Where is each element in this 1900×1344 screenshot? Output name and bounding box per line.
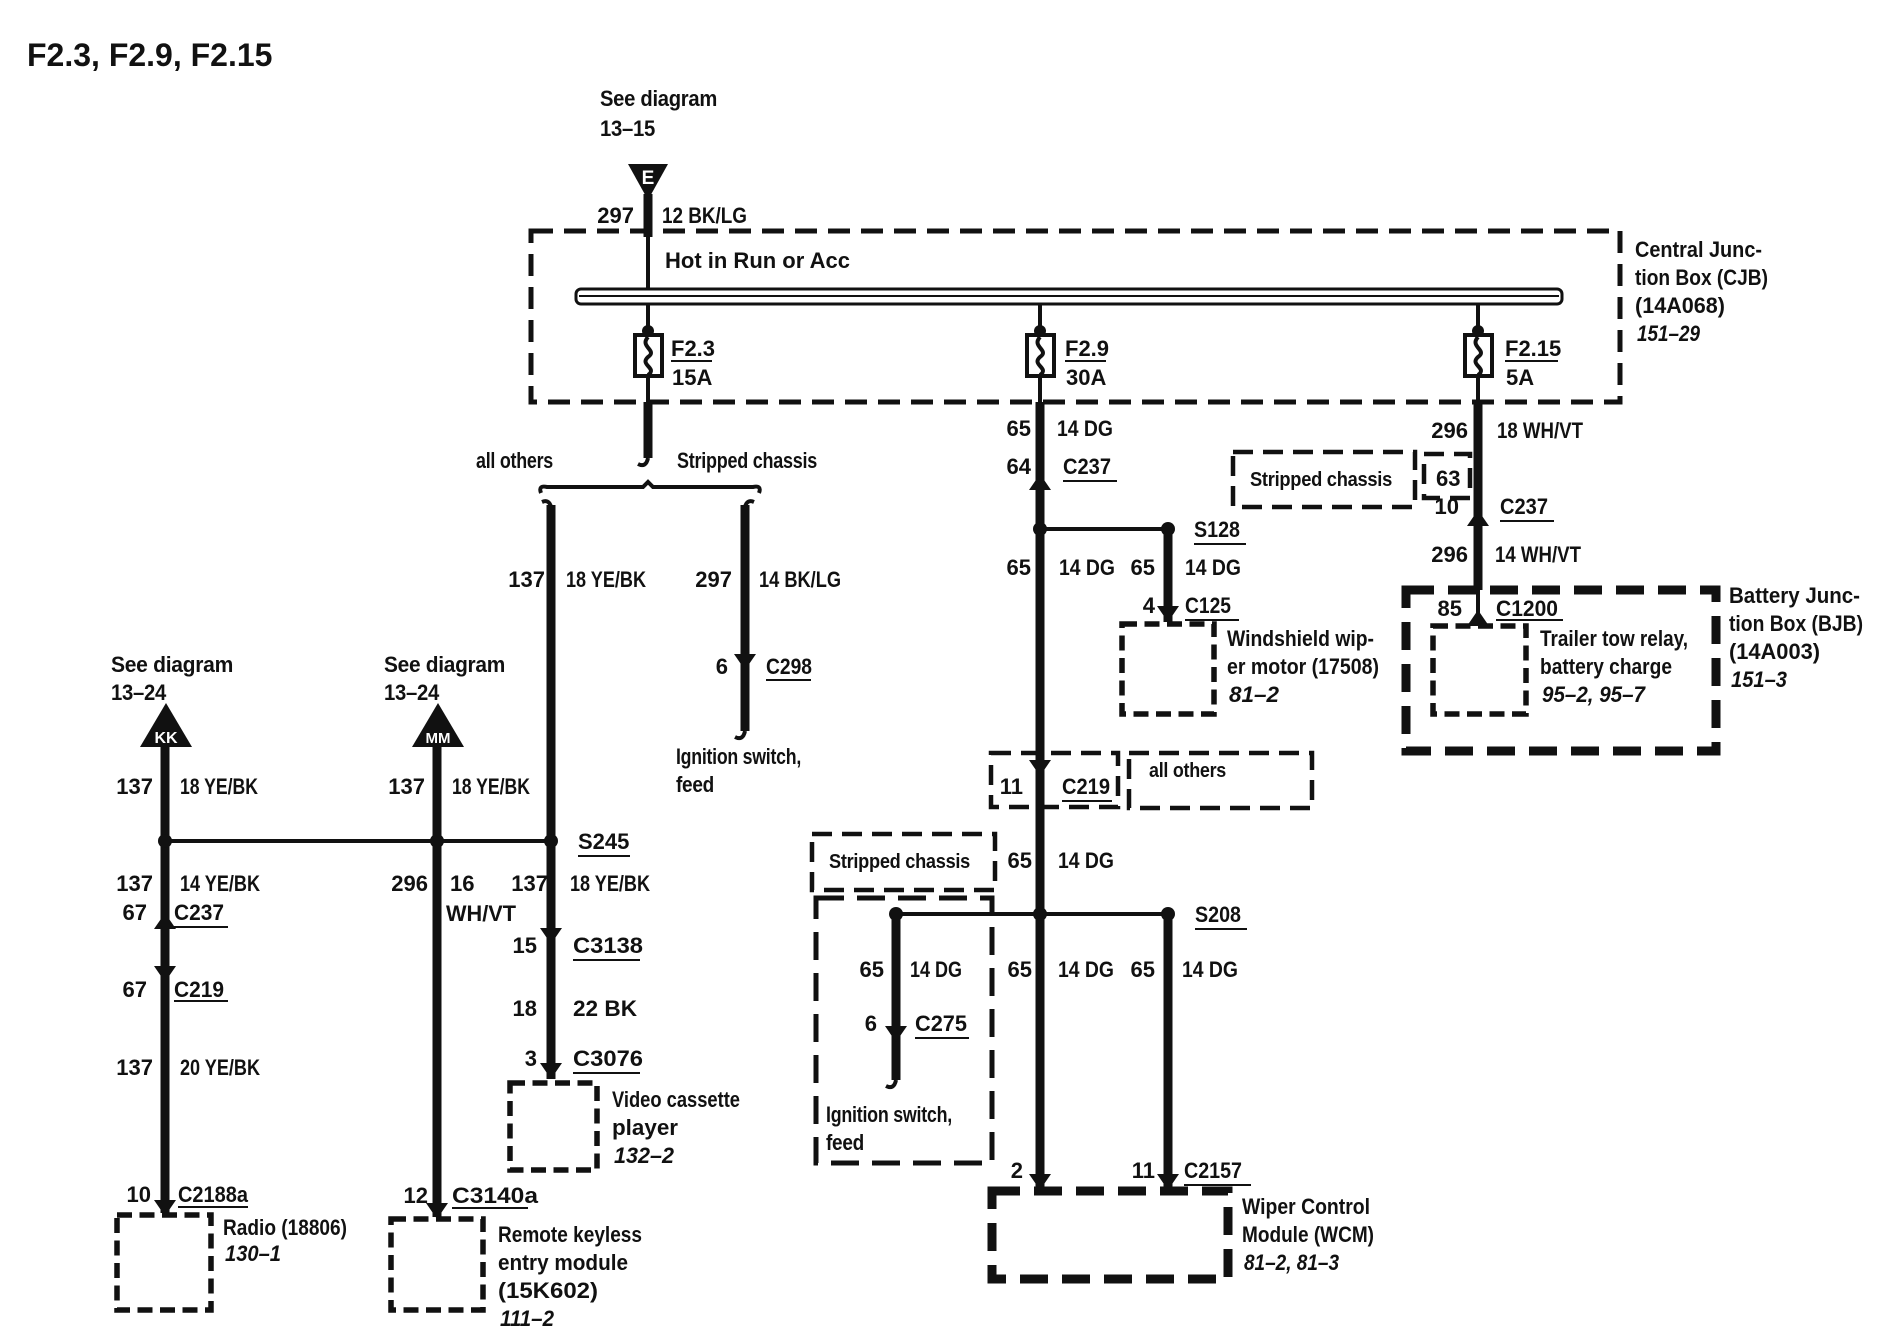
svg-text:2: 2 [1011, 1158, 1023, 1183]
svg-text:Battery Junc-: Battery Junc- [1729, 583, 1860, 608]
split bracket to two feeds [540, 482, 760, 493]
svg-text:C219: C219 [1062, 774, 1110, 799]
svg-text:67: 67 [123, 977, 147, 1002]
junction dot S208 mid [1033, 907, 1047, 921]
svg-text:16: 16 [450, 871, 474, 896]
svg-text:130–1: 130–1 [225, 1241, 281, 1266]
svg-text:See diagram: See diagram [111, 652, 233, 677]
svg-text:12: 12 [404, 1183, 428, 1208]
svg-text:18 YE/BK: 18 YE/BK [452, 774, 530, 799]
svg-text:C298: C298 [766, 654, 812, 679]
svg-text:14 DG: 14 DG [1182, 957, 1238, 982]
svg-text:C3076: C3076 [573, 1046, 643, 1071]
svg-text:F2.3: F2.3 [671, 336, 715, 361]
junction dot S245 at MM wire [430, 834, 444, 848]
wire branch stripped chassis (297 14 BK/LG) [745, 501, 754, 507]
svg-text:10: 10 [127, 1182, 151, 1207]
svg-text:Video cassette: Video cassette [612, 1087, 740, 1112]
svg-text:64: 64 [1007, 454, 1032, 479]
svg-text:65: 65 [860, 957, 884, 982]
wire fuse F2.9 to CJB edge [1038, 376, 1042, 402]
wire bus to fuse F2.3 [646, 304, 650, 335]
svg-text:18 YE/BK: 18 YE/BK [566, 567, 646, 592]
connector C219 pin 67 arrow [154, 966, 176, 982]
wire fuse F2.15 to CJB edge [1476, 376, 1480, 402]
svg-text:85: 85 [1438, 596, 1462, 621]
svg-text:See diagram: See diagram [600, 86, 717, 111]
svg-text:Trailer tow relay,: Trailer tow relay, [1540, 626, 1688, 651]
svg-text:(15K602): (15K602) [498, 1278, 598, 1303]
svg-text:C237: C237 [1500, 494, 1548, 519]
connector C2157 pin 11 arrow [1157, 1174, 1179, 1190]
svg-text:tion Box (CJB): tion Box (CJB) [1635, 265, 1768, 290]
connector C3076 pin 3 arrow [540, 1063, 562, 1079]
connector C3140a pin 12 arrow [426, 1203, 448, 1219]
wire 297 12 BK/LG from E to CJB [644, 194, 653, 237]
svg-text:Ignition switch,: Ignition switch, [676, 744, 801, 769]
svg-text:137: 137 [116, 774, 153, 799]
svg-text:WH/VT: WH/VT [446, 901, 517, 926]
svg-text:C2157: C2157 [1184, 1158, 1242, 1183]
svg-text:C237: C237 [174, 900, 224, 925]
svg-text:14 DG: 14 DG [1059, 555, 1115, 580]
svg-text:er motor (17508): er motor (17508) [1227, 654, 1379, 679]
connector KK (off-page triangle) [140, 703, 192, 747]
Battery Junction Box (BJB) enclosure [1406, 590, 1716, 751]
svg-text:(14A068): (14A068) [1635, 293, 1725, 318]
svg-text:81–2: 81–2 [1229, 682, 1280, 707]
connector C219 pin 11 box [991, 753, 1118, 807]
connector C237 pin 64 arrow [1029, 474, 1051, 490]
fuse F2.3 [635, 335, 662, 376]
svg-text:65: 65 [1008, 848, 1032, 873]
svg-text:10: 10 [1435, 494, 1459, 519]
svg-text:65: 65 [1131, 555, 1155, 580]
connector C2188a pin 10 arrow [154, 1200, 176, 1216]
junction dot fuse F2.15 top [1472, 325, 1484, 337]
svg-text:14 DG: 14 DG [1058, 957, 1114, 982]
svg-text:14 WH/VT: 14 WH/VT [1495, 542, 1581, 567]
svg-text:Hot in Run or Acc: Hot in Run or Acc [665, 248, 850, 273]
svg-text:F2.15: F2.15 [1505, 336, 1561, 361]
svg-text:13–24: 13–24 [111, 680, 167, 705]
svg-text:18 YE/BK: 18 YE/BK [570, 871, 650, 896]
svg-text:137: 137 [511, 871, 548, 896]
connector C298 pin 6 arrow [734, 654, 756, 670]
svg-text:65: 65 [1007, 555, 1031, 580]
connector E (off-page triangle) [628, 164, 668, 200]
connector C237 pin 10 arrow [1467, 510, 1489, 526]
Wiper Control Module (WCM) box [992, 1191, 1228, 1279]
svg-text:Radio (18806): Radio (18806) [223, 1215, 347, 1240]
svg-text:137: 137 [116, 871, 153, 896]
svg-text:See diagram: See diagram [384, 652, 505, 677]
svg-text:S128: S128 [1194, 517, 1240, 542]
connector C125 pin 4 arrow [1157, 606, 1179, 622]
svg-text:Stripped chassis: Stripped chassis [829, 851, 970, 873]
svg-text:137: 137 [388, 774, 425, 799]
svg-text:18 WH/VT: 18 WH/VT [1497, 418, 1583, 443]
svg-text:F2.9: F2.9 [1065, 336, 1109, 361]
svg-text:297: 297 [695, 567, 732, 592]
svg-text:65: 65 [1007, 416, 1031, 441]
note box all others [1129, 753, 1312, 808]
svg-text:297: 297 [597, 203, 634, 228]
svg-text:4: 4 [1143, 593, 1156, 618]
wire F2.3 output below CJB [644, 402, 653, 458]
junction dot S208 right [1161, 907, 1175, 921]
junction dot fuse F2.9 top [1034, 325, 1046, 337]
junction dot S208 left [889, 907, 903, 921]
svg-text:151–3: 151–3 [1731, 667, 1787, 692]
splice S128 crossbar [1040, 527, 1168, 531]
svg-text:Module (WCM): Module (WCM) [1242, 1222, 1374, 1247]
fuse F2.9 [1027, 335, 1054, 376]
junction dot fuse F2.3 top [642, 325, 654, 337]
svg-text:14 YE/BK: 14 YE/BK [180, 871, 260, 896]
svg-text:tion Box (BJB): tion Box (BJB) [1729, 611, 1863, 636]
splice S208 crossbar [896, 912, 1168, 916]
connector C3138 pin 15 arrow [540, 928, 562, 944]
wire F2.9 output 65 14 DG [1036, 402, 1045, 1190]
svg-text:C219: C219 [174, 977, 224, 1002]
svg-text:Windshield wip-: Windshield wip- [1227, 626, 1374, 651]
svg-text:feed: feed [826, 1130, 864, 1155]
svg-text:14 DG: 14 DG [910, 957, 962, 982]
svg-text:S245: S245 [578, 829, 629, 854]
svg-text:11: 11 [1000, 774, 1023, 799]
wire F2.15 output 296 18 WH/VT [1474, 402, 1483, 590]
junction dot S128 right [1161, 522, 1175, 536]
svg-text:KK: KK [154, 730, 178, 747]
svg-text:132–2: 132–2 [614, 1143, 675, 1168]
Radio (18806) box [117, 1215, 211, 1310]
svg-text:14 DG: 14 DG [1058, 848, 1114, 873]
svg-text:S208: S208 [1195, 902, 1241, 927]
svg-text:14 DG: 14 DG [1057, 416, 1113, 441]
svg-text:Stripped chassis: Stripped chassis [1250, 469, 1392, 491]
svg-text:18: 18 [513, 996, 537, 1021]
svg-text:95–2, 95–7: 95–2, 95–7 [1542, 682, 1647, 707]
svg-text:C1200: C1200 [1496, 596, 1558, 621]
svg-text:13–15: 13–15 [600, 116, 655, 141]
svg-text:11: 11 [1132, 1158, 1155, 1183]
svg-text:65: 65 [1008, 957, 1032, 982]
svg-text:137: 137 [116, 1055, 153, 1080]
svg-text:65: 65 [1131, 957, 1155, 982]
Video cassette player box [510, 1083, 597, 1170]
svg-text:14 DG: 14 DG [1185, 555, 1241, 580]
svg-text:20 YE/BK: 20 YE/BK [180, 1055, 260, 1080]
connector MM (off-page triangle) [412, 703, 464, 747]
wire ignition feed branch [892, 914, 901, 1080]
svg-text:12 BK/LG: 12 BK/LG [662, 203, 747, 228]
junction dot S128 left [1033, 522, 1047, 536]
note box Stripped chassis (right) [1233, 452, 1415, 507]
junction dot S245 at VCP wire [544, 834, 558, 848]
svg-text:296: 296 [1431, 542, 1468, 567]
svg-text:18 YE/BK: 18 YE/BK [180, 774, 258, 799]
svg-text:14 BK/LG: 14 BK/LG [759, 567, 841, 592]
svg-text:15: 15 [513, 933, 537, 958]
svg-text:C275: C275 [915, 1011, 967, 1036]
svg-text:Stripped chassis: Stripped chassis [677, 448, 817, 473]
wire keyless entry feed MM column [433, 745, 442, 1217]
wire into BJB [1476, 590, 1480, 618]
wire branch all others (137 18 YE/BK) [542, 501, 551, 507]
svg-text:C125: C125 [1185, 593, 1231, 618]
svg-text:137: 137 [508, 567, 545, 592]
Remote keyless entry module box [391, 1219, 483, 1310]
svg-text:battery charge: battery charge [1540, 654, 1672, 679]
Windshield wiper motor box [1122, 624, 1214, 714]
svg-text:all others: all others [1149, 760, 1226, 782]
svg-text:C3138: C3138 [573, 933, 643, 958]
svg-text:all others: all others [476, 448, 553, 473]
bus bar (hot in run or acc bus) [576, 289, 1562, 304]
svg-text:151–29: 151–29 [1637, 321, 1701, 346]
Trailer tow relay box [1433, 626, 1526, 714]
svg-text:C237: C237 [1063, 454, 1111, 479]
connector C275 pin 6 arrow [885, 1026, 907, 1042]
wire bus to fuse F2.9 [1038, 304, 1042, 335]
svg-text:3: 3 [525, 1046, 537, 1071]
connector pin box 63 [1424, 454, 1470, 498]
svg-text:Central Junc-: Central Junc- [1635, 237, 1762, 262]
Central Junction Box (CJB) dashed enclosure [531, 231, 1620, 402]
wire E feed inside CJB [646, 237, 650, 289]
svg-text:22 BK: 22 BK [573, 996, 637, 1021]
wire S208 to WCM pin 11 [1164, 914, 1173, 1190]
note box Stripped chassis [812, 834, 995, 890]
svg-text:player: player [612, 1115, 678, 1140]
junction dot S245 at KK wire [158, 834, 172, 848]
wire fuse F2.3 to CJB edge [646, 376, 650, 402]
svg-text:30A: 30A [1066, 365, 1106, 390]
svg-text:Remote keyless: Remote keyless [498, 1222, 642, 1247]
svg-text:entry module: entry module [498, 1250, 628, 1275]
svg-text:5A: 5A [1506, 365, 1534, 390]
svg-text:6: 6 [716, 654, 728, 679]
svg-text:6: 6 [865, 1011, 877, 1036]
connector C2157 pin 2 arrow [1029, 1174, 1051, 1190]
svg-text:67: 67 [123, 900, 147, 925]
wire S128 to wiper motor [1164, 529, 1173, 622]
svg-text:81–2, 81–3: 81–2, 81–3 [1244, 1250, 1339, 1275]
connector C1200 pin 85 arrow [1467, 610, 1489, 626]
svg-text:F2.3, F2.9, F2.15: F2.3, F2.9, F2.15 [27, 37, 272, 73]
svg-text:111–2: 111–2 [500, 1306, 555, 1331]
wire radio feed KK column [161, 745, 170, 1213]
svg-text:C2188a: C2188a [178, 1182, 249, 1207]
svg-text:63: 63 [1436, 466, 1460, 491]
svg-text:296: 296 [1431, 418, 1468, 443]
wire bus to fuse F2.15 [1476, 304, 1480, 335]
svg-text:MM: MM [426, 730, 451, 747]
svg-text:E: E [642, 168, 655, 189]
svg-text:Wiper Control: Wiper Control [1242, 1194, 1370, 1219]
splice S245 crossbar [165, 839, 551, 843]
svg-text:13–24: 13–24 [384, 680, 440, 705]
connector C237 pin 67 arrow [154, 913, 176, 929]
fuse F2.15 [1465, 335, 1492, 376]
svg-text:feed: feed [676, 772, 714, 797]
svg-text:15A: 15A [672, 365, 712, 390]
svg-text:(14A003): (14A003) [1729, 639, 1820, 664]
svg-text:296: 296 [391, 871, 428, 896]
svg-text:C3140a: C3140a [452, 1183, 539, 1208]
svg-text:Ignition switch,: Ignition switch, [826, 1102, 952, 1127]
stripped chassis enclosure [816, 898, 992, 1163]
